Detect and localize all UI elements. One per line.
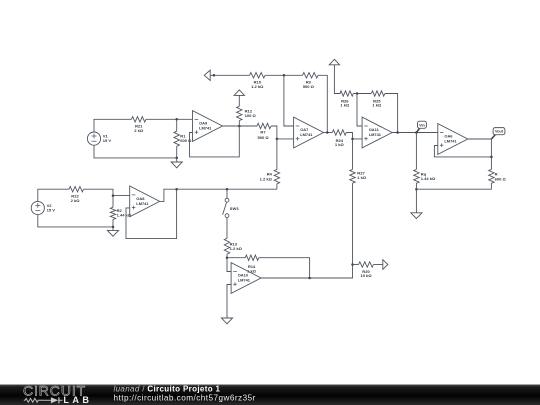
wire OA11 inverting riser — [357, 94, 362, 127]
footer title line — [114, 384, 221, 393]
wire OA7 output — [323, 132, 332, 134]
junction OA7 out / R3 feedback — [326, 131, 329, 134]
svg-text:SW3: SW3 — [230, 206, 240, 211]
wire OA8 output riser — [159, 189, 277, 201]
svg-text:10 kΩ: 10 kΩ — [360, 273, 372, 278]
wire V2 top to R22 — [38, 189, 69, 201]
resistor Rq — [414, 169, 436, 183]
CircuitLab logo LAB text — [63, 395, 92, 405]
svg-text:15 V: 15 V — [103, 138, 112, 143]
wire R14 feedback — [259, 258, 310, 278]
wire R12 bottom lead — [238, 121, 240, 126]
footer url line — [114, 393, 256, 402]
wire SW3 to R13 — [226, 217, 228, 238]
junction SW3 on long wire — [226, 188, 229, 191]
node arrow (right pointer) — [383, 260, 388, 270]
voltage source V1 — [87, 132, 111, 145]
resistor R20 — [359, 262, 374, 278]
resistor R21 — [131, 117, 146, 133]
wire R7 to OA7 + — [271, 126, 294, 139]
resistor R26 — [340, 91, 354, 108]
svg-text:600 Ω: 600 Ω — [495, 176, 507, 181]
wire R22 to OA8 - — [84, 189, 130, 195]
wire R20 to arrow — [373, 264, 382, 266]
svg-text:1 kΩ: 1 kΩ — [335, 142, 345, 147]
resistor R10 — [250, 73, 265, 89]
svg-text:1 kΩ: 1 kΩ — [372, 103, 382, 108]
ground (V1 net) — [171, 162, 182, 168]
wire R2 top lead — [112, 196, 114, 208]
junction R21/R1 — [175, 118, 178, 121]
svg-text:LM741: LM741 — [238, 277, 251, 282]
resistor R7 — [257, 123, 271, 140]
resistor R14 — [245, 255, 259, 273]
wire R2 bottom lead — [112, 219, 114, 227]
resistor R27 — [350, 169, 367, 183]
resistor R1 — [174, 131, 192, 146]
wire to R20 — [353, 264, 359, 266]
svg-text:100 Ω: 100 Ω — [245, 113, 257, 118]
junction OA11 out / R25 feedback — [396, 131, 399, 134]
junction R24/R27/OA11+ — [351, 138, 354, 141]
power supply arrow VCC2 — [329, 59, 339, 65]
svg-text:LAB: LAB — [63, 395, 92, 405]
svg-text:1.2 kΩ: 1.2 kΩ — [251, 84, 264, 89]
svg-text:Vin: Vin — [419, 123, 425, 127]
op-amp OA9 — [193, 111, 223, 142]
svg-text:2 kΩ: 2 kΩ — [134, 128, 144, 133]
svg-text:1.2 kΩ: 1.2 kΩ — [260, 176, 273, 181]
wire OA9 feedback — [190, 126, 240, 157]
svg-text:1.2 kΩ: 1.2 kΩ — [230, 246, 243, 251]
resistor R25 — [371, 91, 385, 108]
wire OA10 + to ground — [227, 285, 231, 319]
junction V2 bottom / ground — [112, 226, 115, 229]
wire OA7 inverting input — [284, 75, 294, 126]
wire R27 top lead — [352, 139, 354, 170]
resistor R13 — [224, 238, 242, 254]
wire OA11 output to Vin node — [392, 132, 438, 134]
svg-text:luanad / Circuito Projeto 1: luanad / Circuito Projeto 1 — [114, 384, 221, 393]
wire ground stub Rq — [415, 189, 417, 213]
wire OA6 feedback — [434, 146, 491, 157]
power supply arrow VCC1 — [234, 90, 244, 96]
voltage source V2 — [31, 201, 55, 214]
resistor R — [489, 169, 507, 183]
junction R22/R2/OA8- — [112, 194, 115, 197]
junction R14 fb / OA10 out — [308, 277, 311, 280]
svg-text:R7: R7 — [260, 129, 266, 134]
svg-text:LM741: LM741 — [199, 125, 212, 130]
wire R12 to power arrow — [238, 95, 240, 106]
junction R27/R20/OA10 out — [351, 263, 354, 266]
svg-text:LM741: LM741 — [136, 201, 149, 206]
resistor R22 — [69, 187, 84, 203]
ground (V2 net) — [107, 230, 118, 236]
wire OA10 output — [261, 265, 353, 279]
svg-text:500 Ω: 500 Ω — [303, 84, 315, 89]
wire R27 down to R20 node — [352, 183, 354, 264]
wire R4 top lead — [276, 139, 278, 170]
wire rowA arrow to R10 — [210, 74, 249, 76]
wire R1 top lead — [176, 119, 178, 131]
wire R10 to R3 — [265, 74, 303, 76]
wire Rq bottom lead — [415, 183, 417, 189]
wire OA9 output — [222, 125, 257, 127]
wire R13 bottom lead — [226, 254, 228, 258]
wire ground stub V2 — [112, 227, 114, 231]
resistor R24 — [332, 130, 346, 147]
svg-text:LM741: LM741 — [300, 132, 313, 137]
ground (OA10 +) — [221, 318, 232, 324]
wire to OA10 inverting — [227, 258, 231, 272]
svg-text:1 kΩ: 1 kΩ — [357, 175, 367, 180]
op-amp OA7 — [294, 117, 324, 148]
wire R3 to feedback riser — [318, 75, 327, 132]
junction R7/R4/OA7+ — [276, 138, 279, 141]
wire pwr2 down to R26 — [334, 65, 340, 94]
svg-text:LM741: LM741 — [369, 132, 382, 137]
op-amp OA8 — [130, 186, 160, 217]
junction OA8 feedback on long wire — [175, 188, 178, 191]
junction V1 bottom / ground — [175, 157, 178, 160]
wire V1 bottom — [94, 145, 177, 158]
svg-text:2 kΩ: 2 kΩ — [71, 198, 81, 203]
junction OA9 out / R12 — [238, 125, 241, 128]
ground (Vin divider net) — [411, 213, 422, 219]
resistor R12 — [237, 106, 257, 120]
switch SW3 — [223, 198, 240, 217]
wire OA8 feedback — [126, 189, 177, 238]
op-amp OA11 — [362, 117, 392, 148]
svg-text:LM741: LM741 — [444, 138, 457, 143]
wire long wire to SW3 — [226, 189, 228, 198]
junction at arrow — [213, 74, 216, 77]
CircuitLab logo resistor squiggle — [24, 398, 43, 402]
junction rowA / OA7 inverting riser — [283, 74, 286, 77]
svg-text:http://circuitlab.com/cht57gw6: http://circuitlab.com/cht57gw6rz35r — [114, 393, 256, 402]
wire V1 top to R21 — [94, 119, 132, 132]
wire R24 to OA11 + — [346, 133, 362, 139]
svg-text:500 Ω: 500 Ω — [257, 135, 269, 140]
wire R25 to output riser — [385, 94, 398, 133]
CircuitLab logo diode — [43, 397, 63, 403]
resistor R3 — [303, 73, 319, 89]
junction rowB — [356, 92, 359, 95]
resistor R2 — [110, 207, 132, 219]
wire R21 to OA9 — [146, 118, 193, 120]
wire R bottom to Rq bottom — [416, 183, 491, 189]
resistor R4 — [260, 169, 280, 183]
wire R1 bottom lead — [176, 146, 178, 158]
svg-text:15 V: 15 V — [47, 208, 56, 213]
wire R4 bottom lead — [276, 184, 278, 189]
svg-text:600 Ω: 600 Ω — [180, 138, 192, 143]
CircuitLab logo wordmark — [23, 383, 86, 399]
op-amp OA10 — [231, 263, 261, 294]
svg-text:1 kΩ: 1 kΩ — [340, 103, 350, 108]
wire R14 left lead — [227, 257, 245, 259]
op-amp OA6 — [438, 124, 468, 155]
wire OA6 output — [467, 139, 491, 169]
node flag Vin — [416, 121, 426, 132]
wire Vin node down to Rq — [415, 133, 417, 170]
wire ground stub V1 — [176, 158, 178, 162]
junction OA6 fb — [490, 156, 493, 159]
svg-text:1 kΩ: 1 kΩ — [247, 268, 257, 273]
svg-text:1.44 kΩ: 1.44 kΩ — [421, 176, 436, 181]
wire R26 to junction — [353, 93, 371, 95]
node arrow (left pointer) — [204, 70, 210, 80]
node flag Vout — [491, 128, 505, 139]
svg-text:Vout: Vout — [495, 130, 504, 134]
junction Vin node — [415, 131, 418, 134]
wire V2 bottom — [38, 215, 113, 227]
junction Rq bottom / ground — [415, 188, 418, 191]
junction R13/R14/OA10- — [226, 256, 229, 259]
